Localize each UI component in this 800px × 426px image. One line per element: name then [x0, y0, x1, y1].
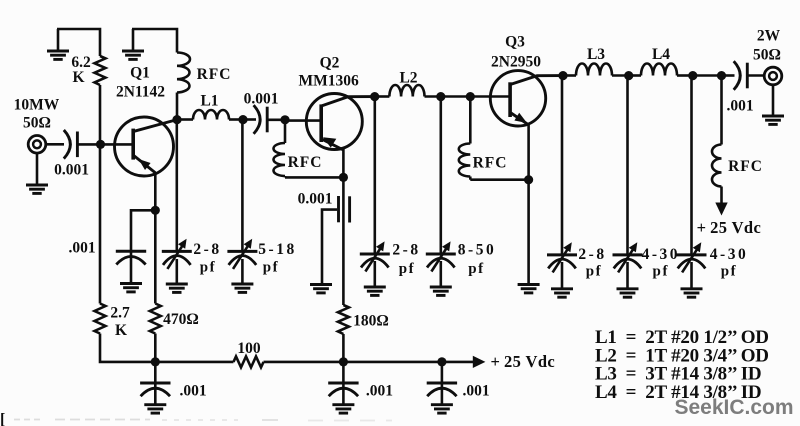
inductor L3: [563, 64, 629, 76]
wire RFC1 to collector node: [176, 93, 179, 120]
wire base node down to 2.7K: [99, 144, 102, 303]
node rail at 180ohm: [339, 357, 348, 366]
wire L4 node to output node: [693, 74, 722, 77]
svg-text:RFC: RFC: [288, 154, 323, 171]
svg-text:K: K: [115, 322, 127, 339]
node Q2 emitter: [339, 173, 348, 182]
svg-text:L1: L1: [200, 93, 218, 110]
ground under trimmer 1: [166, 259, 188, 292]
resistor 470ohm: [150, 304, 161, 334]
svg-text:2N2950: 2N2950: [491, 54, 541, 71]
ground under trimmer 4-30 (1): [617, 262, 639, 297]
svg-text:Q3: Q3: [505, 34, 525, 51]
svg-text:SeekIC.com: SeekIC.com: [674, 396, 793, 419]
wire node down to trimmer 4-30 (2): [690, 76, 693, 255]
ground under Q1 bypass cap: [120, 284, 142, 292]
wire node to Q3 base: [470, 95, 509, 98]
svg-text:pf: pf: [263, 260, 280, 276]
trimmer capacitor 8-50pf: [426, 241, 456, 271]
wire output node to output cap: [722, 74, 735, 77]
wire ground G2 to RFC1: [132, 29, 177, 53]
inductor RFC3 (Q3 base choke): [459, 97, 470, 180]
ground G2 top: [122, 29, 144, 59]
node Q3 collector: [558, 71, 567, 80]
ground under rail bypass 3: [431, 405, 453, 413]
svg-text:RFC: RFC: [728, 158, 763, 175]
node base Q1: [96, 140, 105, 149]
trimmer capacitor 4-30pf (1): [613, 242, 643, 272]
wire RFC4 to +25Vdc arrow: [715, 187, 727, 216]
wire cap to output connector: [747, 74, 764, 77]
wire node down to trimmer 8-50: [439, 97, 442, 254]
svg-text:5-18: 5-18: [258, 241, 296, 258]
svg-text:[: [: [0, 411, 5, 426]
svg-text:50Ω: 50Ω: [23, 115, 51, 132]
svg-text:L2: L2: [399, 70, 417, 87]
ground under trimmer 8-50: [430, 261, 452, 295]
wire cap to Q2 base node: [267, 119, 285, 122]
wire collector node down to trimmer 2-8 (3): [561, 76, 564, 255]
resistor 180ohm: [338, 305, 349, 334]
inductor L4: [629, 64, 693, 76]
wire node down to trimmer 4-30 (1): [626, 76, 629, 255]
wire emitter node to 470 ohm: [154, 210, 157, 303]
trimmer capacitor 2-8pf (1): [162, 239, 192, 269]
trimmer capacitor 5-18pf: [227, 239, 257, 269]
bottom-left scan artifacts: [0, 411, 392, 426]
wire L2 node to Q3 base node: [441, 95, 471, 98]
resistor 100: [234, 356, 264, 367]
ground under trimmer 5-18: [231, 259, 253, 292]
node Q3 emitter: [524, 175, 533, 184]
transistor Q1: [115, 117, 178, 176]
svg-text:K: K: [72, 69, 84, 86]
wire RFC3 to Q3 emitter node: [470, 178, 528, 181]
trimmer capacitor 2-8pf (2): [360, 241, 390, 271]
svg-text:pf: pf: [200, 260, 217, 276]
svg-text:Q2: Q2: [320, 55, 340, 72]
capacitor 0.001 interstage coupling: [254, 105, 268, 134]
wire Q2 emitter node down to 180 ohm: [342, 177, 345, 305]
node Q3 base: [466, 92, 475, 101]
node output: [717, 71, 726, 80]
svg-text:RFC: RFC: [473, 155, 508, 172]
node Q2 base: [280, 115, 289, 124]
svg-text:pf: pf: [399, 261, 416, 277]
wire 6.2K down to base node: [99, 85, 102, 144]
ground under trimmer 2: [364, 261, 386, 295]
node rail at 470ohm: [151, 357, 160, 366]
svg-text:+ 25 Vdc: + 25 Vdc: [490, 352, 555, 371]
resistor 2.7K: [95, 304, 106, 334]
capacitor .001 rail bypass 1: [140, 362, 170, 405]
wire collector node down to trimmer: [176, 120, 179, 252]
inductor RFC4 (output feed choke): [712, 76, 721, 187]
resistor 6.2K: [95, 56, 106, 85]
svg-text:2-8: 2-8: [578, 246, 606, 263]
output connector J2: [764, 67, 782, 85]
svg-text:+ 25 Vdc: + 25 Vdc: [697, 218, 762, 237]
capacitor .001 Q1 emitter bypass: [116, 251, 146, 264]
node Q2 collector: [370, 92, 379, 101]
svg-text:Q1: Q1: [130, 65, 150, 82]
svg-text:50Ω: 50Ω: [753, 47, 781, 64]
ground under rail bypass 1: [144, 405, 166, 413]
wire bottom rail left: [100, 334, 234, 362]
wire 180ohm to rail: [342, 334, 345, 362]
wire input cap to Q1 base: [77, 143, 133, 146]
inductor L2: [375, 85, 441, 97]
node after L1: [238, 115, 247, 124]
svg-text:pf: pf: [468, 261, 485, 277]
svg-text:8-50: 8-50: [458, 242, 496, 259]
svg-text:2N1142: 2N1142: [116, 84, 165, 101]
svg-text:.001: .001: [68, 240, 95, 257]
wire ground G1 to 6.2K resistor: [57, 29, 100, 56]
wire Q1 emitter down: [154, 172, 157, 210]
capacitor 0.001 input coupling: [64, 130, 78, 159]
svg-text:.001: .001: [179, 383, 206, 400]
capacitor .001 output coupling: [734, 61, 748, 90]
wire 470ohm to rail: [154, 334, 157, 362]
svg-text:MM1306: MM1306: [298, 73, 359, 90]
wire RFC2 to Q2 emitter node: [285, 176, 343, 179]
svg-text:180Ω: 180Ω: [353, 313, 389, 330]
wire node down to trimmer 5-18: [241, 120, 244, 252]
inductor L1: [177, 110, 243, 120]
transistor Q3: [490, 71, 563, 126]
node Q1 collector: [172, 115, 181, 124]
svg-text:pf: pf: [653, 264, 670, 280]
svg-text:0.001: 0.001: [244, 91, 279, 108]
svg-text:RFC: RFC: [197, 66, 232, 83]
input connector J1: [28, 136, 46, 154]
wire bottom rail right with +25Vdc arrow: [264, 356, 486, 368]
node after L3: [624, 71, 633, 80]
svg-text:4-30: 4-30: [710, 246, 748, 263]
legend coil table: [595, 327, 769, 403]
svg-text:4-30: 4-30: [642, 246, 680, 263]
ground under output connector: [762, 85, 784, 125]
wire collector node down to trimmer: [373, 97, 376, 254]
svg-text:10MW: 10MW: [14, 97, 60, 114]
inductor RFC2 (Q2 base choke): [274, 120, 286, 178]
node after L2: [436, 92, 445, 101]
capacitor .001 rail bypass 2: [328, 362, 358, 405]
svg-text:pf: pf: [721, 264, 738, 280]
wire node to Q2 base: [285, 119, 321, 122]
wire emitter node to ground: [518, 180, 540, 293]
node after L4: [688, 71, 697, 80]
wire Q2 emitter down: [342, 149, 345, 177]
ground under Q2 bypass: [310, 285, 332, 293]
wire node to interstage cap: [243, 118, 256, 121]
svg-text:L4: L4: [652, 46, 670, 63]
capacitor .001 rail bypass 3: [427, 362, 457, 405]
svg-text:2-8: 2-8: [392, 242, 420, 259]
ground G1 top-left: [47, 29, 69, 59]
svg-text:2W: 2W: [757, 28, 781, 45]
node rail at bypass 3: [437, 357, 446, 366]
node Q1 emitter: [151, 206, 160, 215]
svg-text:100: 100: [237, 340, 261, 357]
svg-text:470Ω: 470Ω: [163, 311, 199, 328]
svg-text:.001: .001: [462, 383, 489, 400]
wire emitter node to bypass cap: [131, 210, 155, 251]
ground under trimmer 4-30 (2): [681, 262, 703, 297]
svg-text:pf: pf: [586, 264, 603, 280]
svg-text:L3: L3: [587, 46, 605, 63]
svg-text:.001: .001: [366, 383, 393, 400]
svg-text:.001: .001: [726, 98, 753, 115]
capacitor 0.001 Q2 emitter bypass: [322, 196, 350, 285]
svg-text:2.7: 2.7: [110, 305, 130, 322]
trimmer capacitor 2-8pf (3): [547, 242, 577, 272]
svg-text:2-8: 2-8: [193, 241, 221, 258]
trimmer capacitor 4-30pf (2): [677, 242, 707, 272]
svg-text:0.001: 0.001: [298, 191, 333, 208]
ground under rail bypass 2: [332, 405, 354, 413]
transistor Q2: [306, 94, 374, 151]
wire Q3 emitter down: [527, 125, 530, 180]
ground under input connector: [26, 153, 48, 193]
svg-text:0.001: 0.001: [54, 162, 89, 179]
wire connector to input cap: [46, 143, 64, 146]
ground under trimmer 3: [551, 262, 573, 297]
inductor RFC1 (Q1 collector choke): [177, 53, 190, 93]
